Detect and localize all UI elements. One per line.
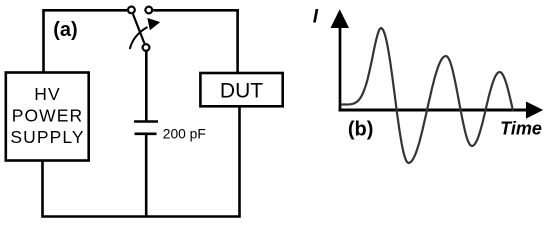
svg-text:200 pF: 200 pF	[163, 127, 206, 142]
svg-text:POWER: POWER	[12, 106, 84, 126]
svg-text:HV: HV	[34, 84, 61, 104]
svg-text:I: I	[313, 7, 319, 28]
svg-text:(a): (a)	[53, 19, 77, 41]
svg-text:DUT: DUT	[220, 80, 263, 103]
svg-text:SUPPLY: SUPPLY	[10, 127, 84, 147]
svg-text:Time: Time	[500, 119, 542, 139]
svg-text:(b): (b)	[348, 119, 374, 141]
